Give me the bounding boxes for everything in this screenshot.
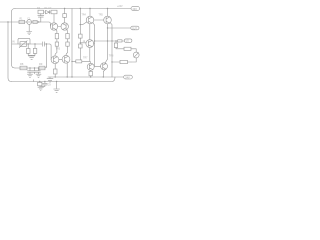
wire base feed left bbox=[72, 60, 76, 62]
node bottom rail b bbox=[39, 81, 40, 82]
node VBE base bbox=[80, 42, 81, 43]
wire bias column x80 from rail bbox=[79, 9, 81, 35]
wire join drops bbox=[28, 53, 35, 55]
resistor R14 y62 bbox=[120, 60, 128, 63]
wire input to Q1 base bbox=[38, 22, 50, 26]
wire y62 cont bbox=[128, 61, 132, 63]
ground under input circle bbox=[27, 32, 32, 35]
trimpot RV2 bbox=[20, 42, 27, 47]
terminal mid right y28 bbox=[131, 26, 139, 30]
wire Q1 emitter down bbox=[55, 30, 58, 34]
svg-text:R9: R9 bbox=[39, 62, 43, 66]
wire mid ground rail bbox=[48, 76, 124, 78]
node bottom rail b2 bbox=[44, 81, 45, 82]
wire drop x56 below rail bbox=[56, 82, 58, 89]
node y44 x35 bbox=[34, 43, 35, 44]
wire base link pair bbox=[58, 26, 61, 28]
wire vbe right link bbox=[93, 42, 96, 44]
wire y68 bias lower bbox=[15, 67, 47, 69]
wire R21 down bbox=[54, 74, 56, 77]
capacitor C4 drop b bbox=[33, 68, 37, 74]
wire VBE base link bbox=[80, 42, 86, 44]
svg-text:OUT: OUT bbox=[132, 28, 137, 30]
capacitor C3 drop a bbox=[28, 68, 33, 74]
wire bias drop x41 bbox=[40, 17, 42, 22]
svg-text:+24V: +24V bbox=[117, 5, 123, 8]
svg-text:R8: R8 bbox=[20, 62, 24, 66]
node mid rail j4 bbox=[90, 76, 91, 77]
wire bias lower leg bbox=[79, 48, 81, 60]
node diag x80 bbox=[80, 24, 81, 25]
wire y62 from x112 bbox=[112, 61, 120, 63]
wire bias chain top bbox=[44, 11, 51, 13]
resistor R5b second stage bbox=[55, 42, 58, 46]
wire Q8 collector from rail bbox=[89, 9, 91, 17]
node bias x80 rail bbox=[80, 8, 81, 9]
transistor Q7 vbe multiplier bbox=[86, 40, 94, 48]
ground below drops bbox=[29, 56, 35, 59]
resistor R19 drop bbox=[27, 48, 31, 53]
wire Q10 emitter to resistor bbox=[90, 70, 92, 71]
resistor R24 inline y41 bbox=[118, 40, 122, 42]
wire output node y41 bbox=[95, 40, 125, 42]
wire Q2 emitter down bbox=[66, 30, 69, 34]
svg-text:TR4: TR4 bbox=[82, 14, 87, 16]
svg-text:TR3: TR3 bbox=[56, 48, 61, 51]
wire drop x28 bbox=[27, 44, 29, 48]
wire R5 to Q3 bbox=[56, 39, 58, 42]
capacitor C6 series y44 bbox=[42, 42, 44, 46]
wire Q2 collector from rail bbox=[53, 14, 55, 23]
capacitor C10 below rail bbox=[40, 82, 48, 87]
node mid rail j1 bbox=[55, 76, 56, 77]
trimpot RV1 top bbox=[38, 10, 44, 14]
resistor R23 on dropper bbox=[63, 14, 67, 18]
wire bias mid bbox=[79, 38, 81, 44]
wire bias backbone x94 bbox=[94, 25, 96, 66]
wire Q9 base left bbox=[94, 19, 104, 21]
wire drop under input circle bbox=[28, 24, 30, 31]
wire R6 to Q4 bbox=[67, 39, 69, 42]
terminal out y40 bbox=[124, 39, 132, 42]
wire chain to driver Q6 bbox=[66, 46, 68, 55]
resistor R17 y68 a bbox=[20, 66, 27, 70]
wire Q9 emitter down bbox=[107, 24, 109, 41]
node mid rail j2 bbox=[67, 76, 68, 77]
node y41 c bbox=[94, 40, 95, 41]
transistor Q2 input pair right bbox=[61, 23, 68, 30]
wire input from left edge bbox=[0, 21, 40, 23]
svg-text:TR5: TR5 bbox=[99, 14, 104, 16]
svg-text:D1 C7: D1 C7 bbox=[45, 7, 52, 10]
wire Q11 emitter down bbox=[103, 70, 105, 78]
capacitor C8 drop bbox=[33, 48, 37, 53]
wire Q9 collector from rail bbox=[107, 9, 109, 17]
wire x74 vertical bbox=[71, 9, 73, 78]
resistor R2 input series bbox=[27, 20, 32, 25]
wire base feed right bbox=[82, 60, 90, 62]
terminal +V top right bbox=[131, 7, 140, 11]
node input junction bbox=[7, 21, 8, 22]
node Q8 rail bbox=[89, 8, 90, 9]
resistor R21 under Q5 bbox=[53, 69, 57, 74]
resistor R5 below Q1 bbox=[55, 34, 58, 39]
speaker SP1 bbox=[133, 52, 139, 58]
ground bias cluster a bbox=[27, 74, 32, 77]
node y41 a bbox=[107, 40, 108, 41]
wire zobel down bbox=[115, 40, 116, 41]
wire Q8 base left bbox=[80, 22, 87, 25]
wire bottom rail bbox=[12, 77, 116, 82]
wire to terminal y28 bbox=[108, 27, 131, 29]
wire driver base link bbox=[59, 59, 62, 61]
wire Q5 down to mid rail bbox=[54, 64, 56, 69]
ground bias cluster b bbox=[36, 74, 41, 77]
svg-text:IN: IN bbox=[12, 40, 15, 44]
node y28 bbox=[107, 27, 108, 28]
node x112 y62 bbox=[111, 61, 112, 62]
wire bias down leg bbox=[40, 14, 42, 16]
node bottom rail d bbox=[56, 81, 57, 82]
resistor R15 base feed bbox=[76, 60, 82, 63]
wire left vertical from rail bbox=[12, 9, 16, 69]
resistor R9 bias upper bbox=[79, 34, 83, 38]
node x74 y61 bbox=[71, 61, 72, 62]
wire R23 to Q2 bbox=[64, 17, 66, 22]
resistor R13 zobel horizontal bbox=[124, 47, 131, 50]
wire y44 cont bbox=[44, 43, 49, 45]
svg-text:C9: C9 bbox=[48, 84, 52, 86]
wire x112 vertical bbox=[110, 22, 112, 77]
diode D2 input wire bbox=[33, 21, 37, 24]
wire zobel right bbox=[116, 48, 124, 49]
resistor R16 emitter bbox=[89, 71, 92, 76]
node Q9 rail bbox=[107, 8, 108, 9]
wire x46 vertical feedback bbox=[46, 44, 48, 67]
wire Q6 down to mid rail bbox=[66, 63, 68, 77]
wire zobel corner bbox=[131, 49, 136, 52]
transistor Q5 driver left bbox=[51, 56, 59, 64]
resistor R6b second stage bbox=[66, 42, 69, 46]
ground mid rail left bbox=[47, 77, 53, 82]
wire top supply rail bbox=[15, 8, 131, 10]
node y44 x28 bbox=[28, 43, 29, 44]
svg-text:TR7: TR7 bbox=[83, 57, 88, 60]
wire feedback left down bbox=[8, 22, 12, 82]
node y41 b bbox=[111, 40, 112, 41]
resistor R1 input series bbox=[19, 20, 25, 23]
node mid rail j3 bbox=[71, 76, 72, 77]
wire R16 down bbox=[90, 76, 92, 77]
wire Q11 base from bias bbox=[95, 65, 101, 67]
ground below x56 bbox=[54, 89, 60, 92]
node mid rail j5 bbox=[103, 76, 104, 77]
node y68 c bbox=[38, 67, 39, 68]
resistor R12 zobel vertical bbox=[114, 43, 117, 48]
ground below R20 bbox=[38, 86, 44, 90]
wire bottom rail stub bbox=[33, 80, 35, 82]
node y68 a bbox=[29, 67, 30, 68]
wire Q2 collector dropper bbox=[64, 9, 66, 14]
node y68 b bbox=[34, 67, 35, 68]
wire drop x35 bbox=[34, 44, 36, 48]
wire Q8 emitter diagonal bbox=[93, 22, 95, 25]
wire y44 to Q3 bbox=[50, 44, 52, 60]
capacitor C5 drop c bbox=[37, 68, 41, 74]
wire feedback loop top bbox=[18, 38, 30, 44]
wire speaker down bbox=[131, 58, 136, 62]
node base wire junction bbox=[38, 21, 39, 22]
wire vbe to node bbox=[89, 48, 91, 62]
svg-text:TR8: TR8 bbox=[109, 55, 114, 58]
transistor Q1 input pair left bbox=[50, 23, 57, 30]
wire y44 input lower bbox=[12, 43, 42, 45]
node x46 y44 bbox=[46, 43, 47, 44]
transistor Q9 top right b bbox=[104, 16, 112, 24]
wire Q8 emitter down x89 bbox=[89, 24, 91, 40]
transistor Q10 output right a bbox=[87, 63, 94, 70]
resistor R18 y68 b bbox=[39, 66, 45, 70]
svg-text:24V: 24V bbox=[133, 8, 138, 11]
resistor R6 below Q2 bbox=[66, 34, 69, 39]
transistor Q8 top right a bbox=[86, 16, 94, 24]
wire node to Q10 bbox=[89, 61, 92, 63]
diode D1 box bbox=[51, 10, 57, 14]
resistor R10 bias lower bbox=[79, 44, 83, 48]
wire Q11 top from x107 bbox=[105, 41, 108, 64]
node rail junction x62 bbox=[64, 8, 65, 9]
svg-text:LS: LS bbox=[126, 40, 129, 42]
transistor Q6 driver right bbox=[62, 55, 70, 63]
terminal -V bottom right bbox=[124, 75, 133, 79]
transistor Q11 output right b bbox=[101, 63, 108, 70]
capacitor C1 bias bars bbox=[46, 10, 50, 13]
wire chain to driver Q5 bbox=[55, 46, 57, 56]
resistor R20 below rail bbox=[38, 82, 42, 86]
svg-text:24V: 24V bbox=[125, 77, 130, 80]
capacitor C2 bars bbox=[38, 16, 44, 18]
